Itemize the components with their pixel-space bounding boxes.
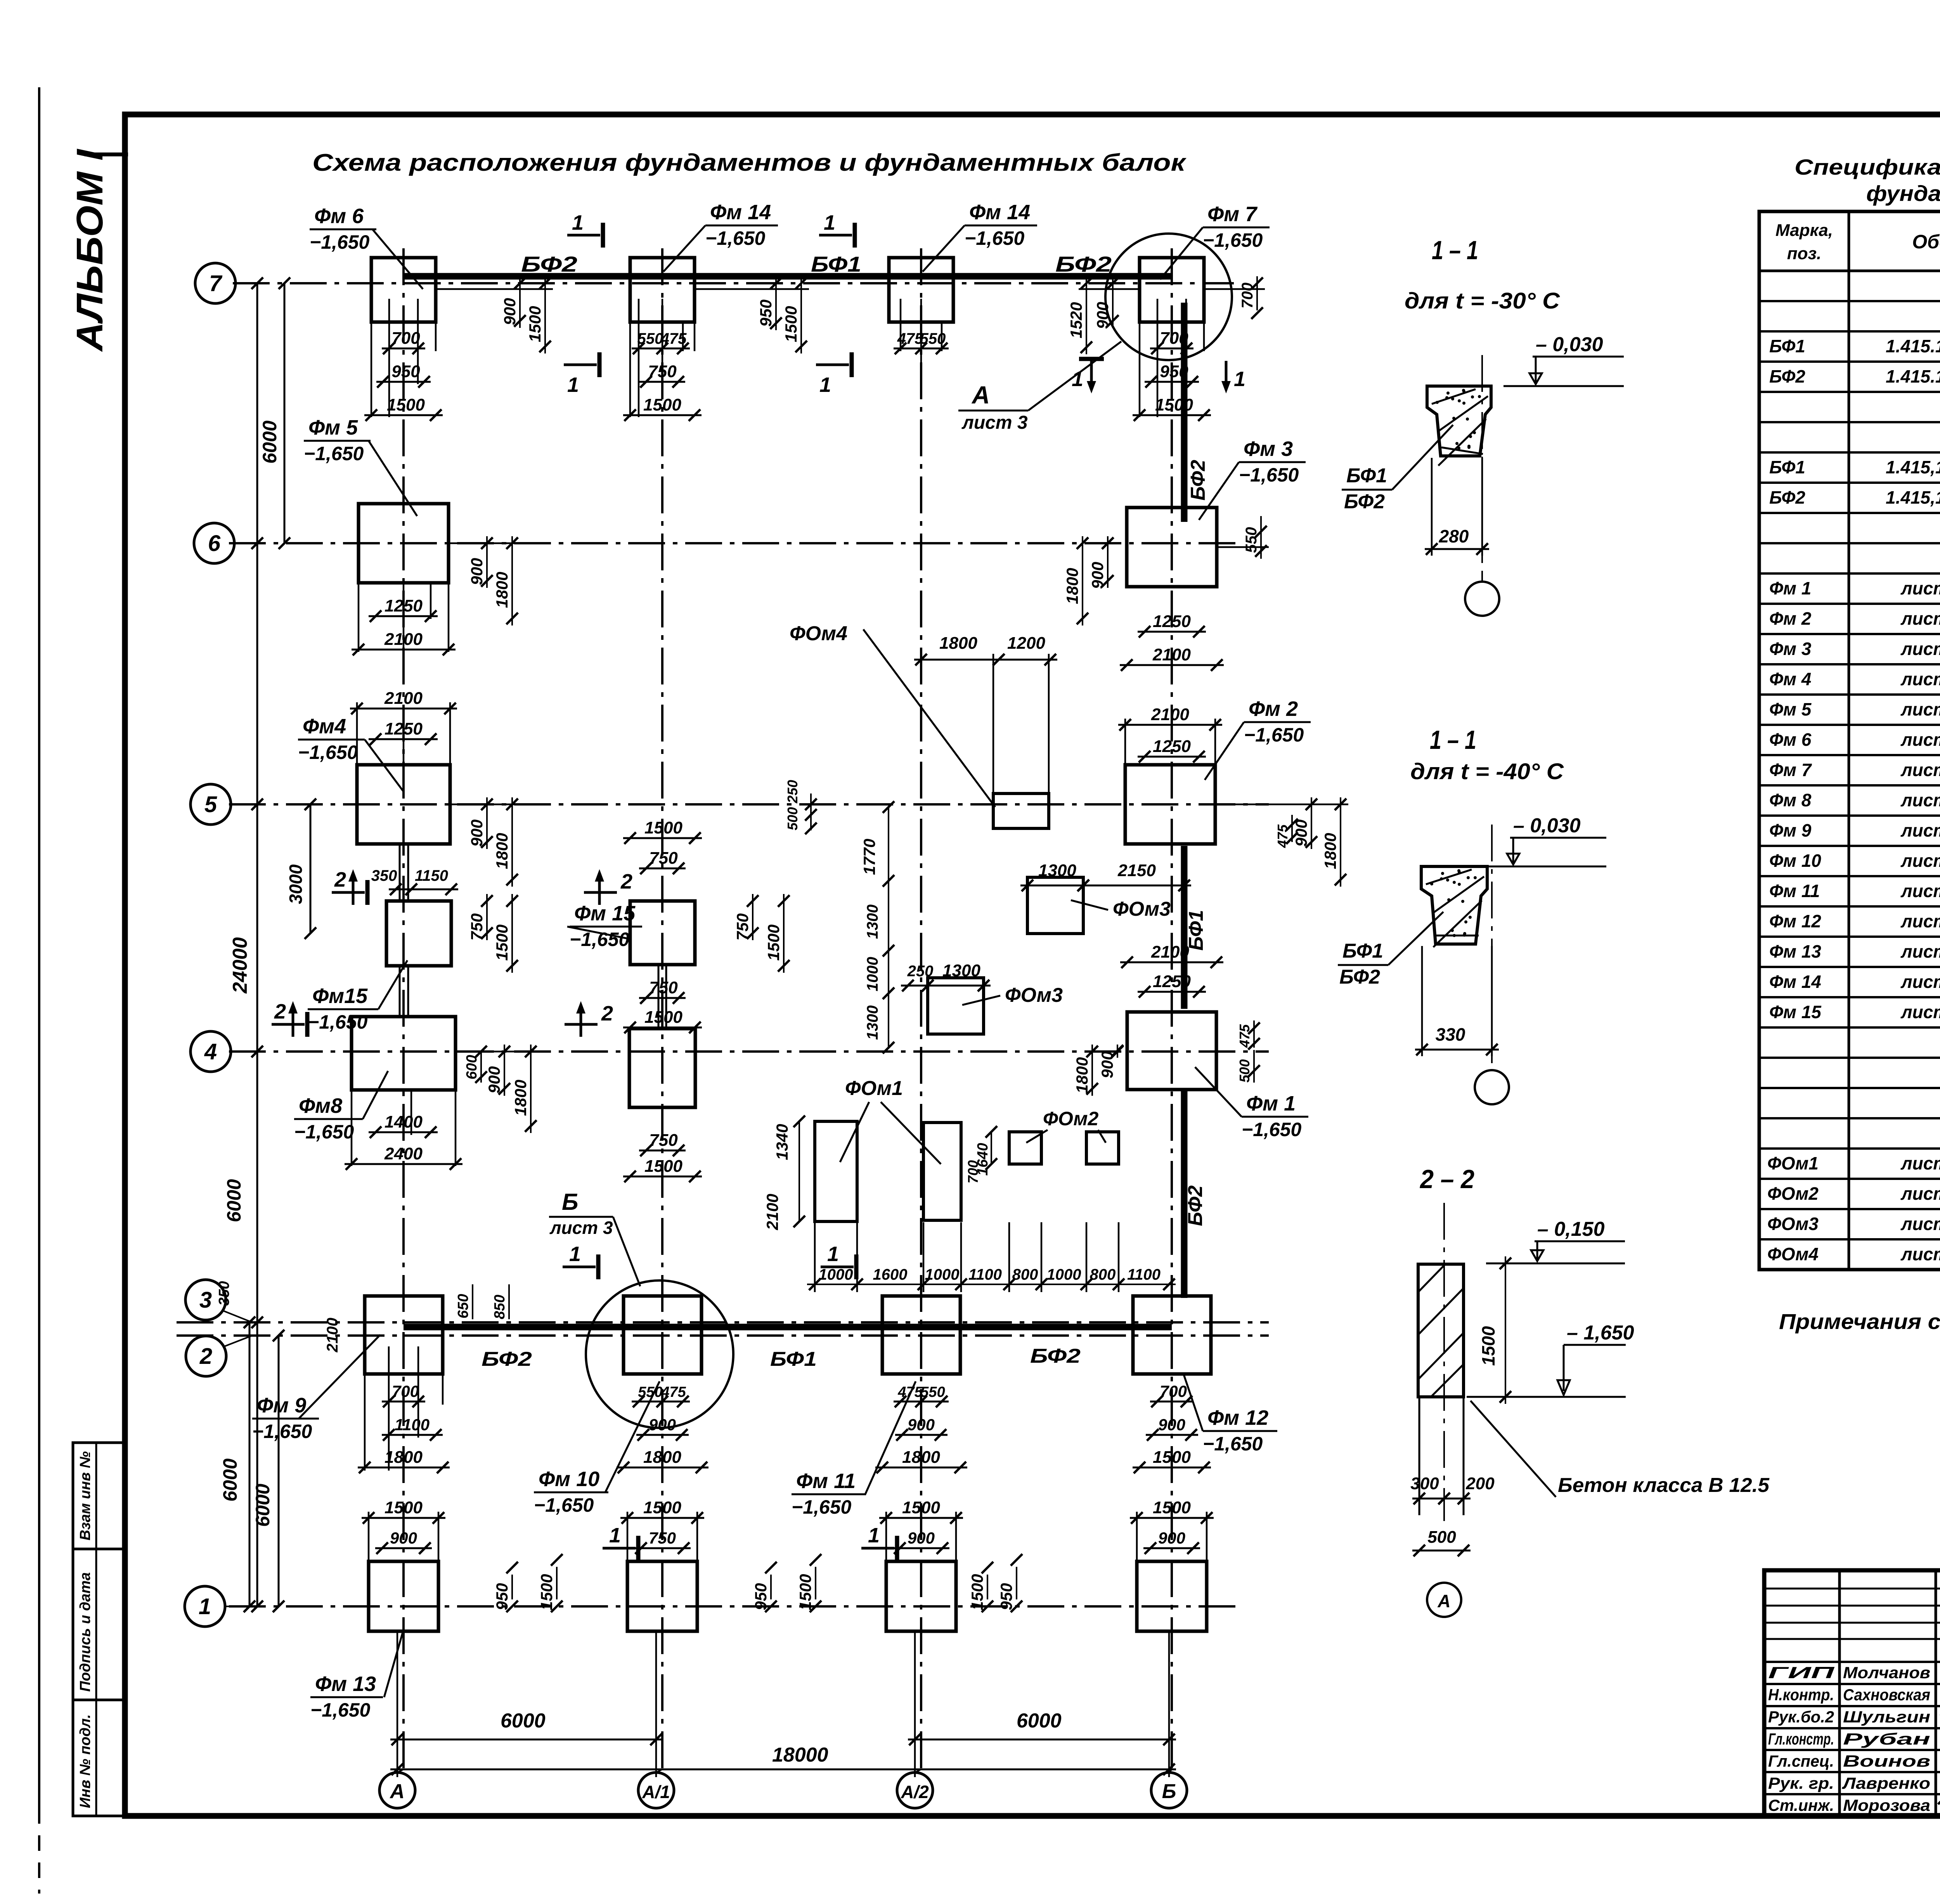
svg-text:Молчанов: Молчанов — [1843, 1663, 1930, 1682]
svg-text:−1,650: −1,650 — [298, 742, 358, 763]
dims below Фм7 700/950/1500 — [1157, 299, 1159, 417]
svg-text:Фм 7: Фм 7 — [1207, 203, 1258, 226]
svg-text:700: 700 — [965, 1160, 981, 1183]
dims above row2 650/850 and 2100 — [472, 1284, 473, 1319]
section 2-2 column with hatch — [1418, 1264, 1464, 1397]
svg-text:−1,650: −1,650 — [252, 1421, 312, 1442]
beam БФ2 row7 А-А/1 — [404, 273, 662, 280]
svg-text:1400: 1400 — [385, 1112, 423, 1131]
section 2-2 centerline — [1443, 1203, 1445, 1521]
svg-text:А/2: А/2 — [901, 1782, 929, 1802]
svg-text:900: 900 — [501, 298, 519, 325]
section 2-2 column below lines — [1419, 1397, 1420, 1515]
svg-text:АЛЬБОМ I: АЛЬБОМ I — [69, 148, 111, 352]
svg-text:1000: 1000 — [1047, 1266, 1081, 1283]
portal lines col А between rows 5-4 — [399, 844, 401, 901]
dims below Фм15 second 750/1500 — [639, 997, 686, 999]
svg-text:Фм 15: Фм 15 — [574, 902, 636, 925]
svg-text:для t = -30° C: для t = -30° C — [1405, 288, 1560, 314]
dims 950/1500 right of row1 squares — [511, 1575, 513, 1599]
svg-text:поз.: поз. — [1787, 244, 1821, 263]
svg-text:550: 550 — [637, 330, 663, 347]
svg-text:ФОм3: ФОм3 — [1113, 898, 1171, 920]
svg-text:900: 900 — [1098, 1051, 1116, 1078]
axis row 1 — [229, 1605, 1238, 1608]
section mark 2 upper right — [584, 891, 617, 894]
svg-text:А/1: А/1 — [642, 1782, 670, 1802]
section mark 2 lower right — [565, 1023, 598, 1026]
dims below Фм9 700/1100/1800 — [388, 1346, 390, 1471]
svg-text:500: 500 — [1427, 1528, 1456, 1547]
svg-text:2: 2 — [274, 1000, 286, 1023]
grid circle 5 — [191, 784, 231, 825]
svg-text:Фм8: Фм8 — [299, 1094, 342, 1117]
svg-text:ФОм3: ФОм3 — [1767, 1214, 1819, 1234]
svg-text:6000: 6000 — [252, 1484, 274, 1527]
svg-text:7: 7 — [209, 271, 223, 296]
svg-text:700: 700 — [1160, 329, 1188, 348]
equipment foundation ФОм2 left — [1009, 1132, 1041, 1164]
svg-text:2400: 2400 — [384, 1144, 423, 1163]
dims right of Фм4 900/1800 — [486, 797, 488, 849]
svg-text:лист 4: лист 4 — [1900, 639, 1940, 659]
svg-text:2: 2 — [334, 868, 346, 891]
svg-text:900: 900 — [1158, 1529, 1185, 1547]
svg-text:1: 1 — [827, 1242, 839, 1266]
svg-text:900: 900 — [1093, 302, 1112, 329]
section mark 1 below row7 second — [816, 364, 849, 366]
svg-text:800: 800 — [1012, 1266, 1038, 1283]
svg-text:6000: 6000 — [501, 1710, 546, 1732]
foundation Фм13 (row1 col А/1) — [627, 1561, 697, 1631]
svg-text:−1,650: −1,650 — [294, 1121, 354, 1143]
svg-text:Фм 13: Фм 13 — [1769, 941, 1821, 962]
dims below Фм14 second 475,550 — [900, 299, 902, 351]
svg-text:1000: 1000 — [864, 957, 881, 991]
axis row 3 — [177, 1321, 1269, 1324]
svg-text:−1,650: −1,650 — [570, 929, 630, 950]
svg-text:Примечания см. лист 3.: Примечания см. лист 3. — [1779, 1309, 1940, 1334]
svg-text:1500: 1500 — [1478, 1326, 1498, 1366]
svg-text:лист 3: лист 3 — [549, 1218, 613, 1238]
svg-text:475: 475 — [1275, 824, 1290, 848]
svg-text:1300: 1300 — [1038, 861, 1076, 880]
grid circle 2 — [186, 1336, 226, 1376]
svg-text:950: 950 — [757, 300, 775, 327]
section 1-1 (t=-40) beam cross-section — [1421, 866, 1487, 944]
svg-text:750: 750 — [649, 849, 678, 868]
svg-text:лист 3: лист 3 — [961, 412, 1028, 433]
svg-text:ФОм2: ФОм2 — [1767, 1183, 1819, 1204]
svg-text:900: 900 — [649, 1415, 676, 1434]
dims below Фм6 700/950/1500 — [388, 299, 390, 417]
svg-text:6: 6 — [208, 531, 221, 556]
svg-text:750: 750 — [649, 1529, 676, 1547]
svg-text:Фм 15: Фм 15 — [1769, 1002, 1822, 1022]
foundation Фм1 (row4 col Б) — [1127, 1012, 1216, 1090]
svg-text:850: 850 — [492, 1295, 508, 1319]
svg-text:950: 950 — [752, 1583, 770, 1610]
svg-text:500: 500 — [1237, 1059, 1252, 1083]
svg-text:1500: 1500 — [1153, 1448, 1191, 1467]
svg-text:лист 6: лист 6 — [1900, 851, 1940, 871]
svg-text:Фм 5: Фм 5 — [1769, 699, 1812, 719]
svg-text:– 0,150: – 0,150 — [1537, 1218, 1605, 1240]
svg-text:6000: 6000 — [219, 1459, 241, 1502]
dim 2150/1300 above ФОм3 upper — [1020, 885, 1090, 887]
svg-text:1.415.1-2, вып. 1: 1.415.1-2, вып. 1 — [1886, 366, 1940, 386]
svg-text:лист 5: лист 5 — [1900, 729, 1940, 750]
svg-text:500: 500 — [785, 807, 800, 830]
svg-text:1250: 1250 — [1153, 737, 1191, 756]
equipment foundation ФОм1 left — [815, 1121, 857, 1221]
section 2-2 dims 300/200 — [1412, 1498, 1451, 1500]
dims 1640/700 left of ФОм2 — [991, 1132, 992, 1164]
svg-text:−1,650: −1,650 — [1239, 464, 1299, 486]
svg-text:950: 950 — [1160, 362, 1188, 381]
dims right of Фм2 900/1800/475 — [1311, 797, 1312, 849]
svg-text:А: А — [389, 1780, 405, 1803]
svg-text:Рук. гр.: Рук. гр. — [1768, 1774, 1834, 1792]
svg-text:Фм 6: Фм 6 — [1769, 729, 1812, 750]
svg-text:900: 900 — [1292, 819, 1310, 847]
svg-text:Фм 3: Фм 3 — [1244, 437, 1293, 461]
equipment foundation ФОм3 lower — [928, 978, 984, 1034]
svg-text:250: 250 — [907, 963, 934, 980]
section 1-1 (t=-30) axis circle — [1481, 574, 1483, 582]
svg-text:– 0,030: – 0,030 — [1536, 333, 1603, 356]
svg-text:ФОм1: ФОм1 — [1767, 1153, 1819, 1173]
svg-text:24000: 24000 — [229, 937, 251, 994]
svg-text:1300: 1300 — [864, 1005, 881, 1040]
svg-text:2100: 2100 — [1151, 705, 1189, 724]
svg-text:Фм 4: Фм 4 — [1769, 669, 1811, 689]
foundation Фм14 (row7 col А/1) — [630, 258, 695, 322]
svg-text:Н.контр.: Н.контр. — [1768, 1686, 1834, 1704]
svg-text:1800: 1800 — [902, 1448, 940, 1467]
foundation Фм7 (row7 col Б) — [1140, 258, 1204, 322]
svg-text:БФ2: БФ2 — [1184, 1185, 1207, 1226]
equipment foundation ФОм2 right — [1086, 1132, 1119, 1164]
svg-text:350: 350 — [371, 867, 397, 884]
foundation Фм6 (row7 col А) — [371, 258, 436, 322]
svg-text:18000: 18000 — [772, 1744, 828, 1766]
section mark 1 above row2 first — [563, 1266, 596, 1268]
dims left of Фм3 1800/900 — [1082, 536, 1083, 625]
svg-text:1200: 1200 — [1007, 634, 1045, 653]
margin box Подпись и дата — [73, 1549, 125, 1700]
svg-text:лист 7: лист 7 — [1900, 911, 1940, 931]
axis row 7 — [233, 282, 1234, 284]
beam БФ1 row7 А/1-А/2 — [662, 273, 921, 280]
beam БФ2 row7 А/2-Б — [921, 273, 1172, 280]
svg-text:БФ1: БФ1 — [1342, 940, 1383, 962]
svg-text:900: 900 — [390, 1529, 417, 1547]
axis row 2 — [177, 1334, 1269, 1337]
svg-text:800: 800 — [1090, 1266, 1116, 1283]
beam БФ2 vertical col Б rows 7-6 — [1181, 303, 1188, 522]
svg-text:475: 475 — [661, 1384, 686, 1400]
beam БФ1 vertical col Б rows 5-4 — [1181, 846, 1188, 1009]
svg-text:Фм 11: Фм 11 — [1769, 881, 1820, 901]
svg-text:550: 550 — [920, 1384, 945, 1400]
svg-text:Фм 8: Фм 8 — [1769, 790, 1812, 810]
svg-text:БФ2: БФ2 — [1769, 487, 1805, 508]
svg-text:750: 750 — [648, 362, 677, 381]
dim 700 right of Фм7 — [1256, 276, 1258, 310]
svg-text:1800: 1800 — [385, 1448, 423, 1467]
section 1-1 (t=-40) axis circle — [1475, 1070, 1509, 1104]
svg-text:700: 700 — [1160, 1382, 1187, 1400]
beam row2 А-Б — [404, 1324, 1172, 1331]
svg-text:700: 700 — [1239, 282, 1256, 308]
svg-text:900: 900 — [908, 1415, 935, 1434]
svg-text:Фм 14: Фм 14 — [1769, 972, 1821, 992]
svg-text:1340: 1340 — [773, 1124, 791, 1160]
svg-text:250: 250 — [785, 780, 800, 804]
svg-text:1500: 1500 — [643, 1498, 681, 1517]
grid circle 3 — [185, 1280, 226, 1320]
section mark 1 arrow near Б left — [1090, 361, 1093, 388]
svg-text:1000: 1000 — [819, 1266, 853, 1283]
foundation Фм13 (row1 col А/2) — [886, 1561, 956, 1631]
dimension 6000 А-А/1 — [390, 1739, 663, 1741]
dims below Фм12 700/900/1500 — [1150, 1401, 1193, 1403]
svg-text:1500: 1500 — [1153, 1498, 1191, 1517]
grid circle 4 — [191, 1031, 231, 1072]
svg-text:Лавренко: Лавренко — [1842, 1774, 1930, 1792]
svg-text:лист 3: лист 3 — [1900, 1153, 1940, 1173]
svg-text:900: 900 — [908, 1529, 935, 1547]
svg-text:1250: 1250 — [385, 596, 423, 615]
dims below Фм10 550,475/900/1800 — [632, 1401, 690, 1403]
svg-text:−1,650: −1,650 — [1244, 724, 1304, 746]
section 1-1 (t=-40) centerline — [1491, 825, 1493, 1063]
svg-text:1: 1 — [567, 373, 579, 397]
svg-text:1.415.1-2, вып. 1: 1.415.1-2, вып. 1 — [1886, 336, 1940, 356]
beam БФ2 vertical col Б rows 4-2 — [1181, 1090, 1188, 1298]
svg-text:650: 650 — [455, 1294, 471, 1318]
svg-text:1800: 1800 — [1073, 1057, 1091, 1093]
svg-text:1520: 1520 — [1067, 302, 1085, 338]
svg-text:2: 2 — [601, 1002, 613, 1025]
section 1-1 (t=-40) dim 330 — [1421, 946, 1423, 1056]
foundation Фм2 (row5 col Б) — [1125, 765, 1215, 844]
svg-text:1500: 1500 — [796, 1574, 814, 1610]
foundation Фм12 (row2 col Б) — [1133, 1296, 1211, 1374]
svg-text:Сахновская: Сахновская — [1843, 1686, 1930, 1704]
svg-text:лист 7: лист 7 — [1900, 941, 1940, 962]
svg-text:350: 350 — [216, 1281, 232, 1306]
axis column А — [402, 248, 405, 1769]
svg-text:1: 1 — [569, 1242, 581, 1266]
svg-text:БФ1: БФ1 — [811, 252, 861, 276]
svg-text:для t = -40° C: для t = -40° C — [1410, 759, 1564, 784]
svg-text:Фм 14: Фм 14 — [969, 201, 1030, 224]
dimension 6000 rows 2-1 chain — [278, 1336, 280, 1606]
svg-text:Воинов: Воинов — [1843, 1752, 1930, 1770]
callout circle А around Фм7 — [1105, 234, 1232, 360]
section mark 1 below row2 first — [603, 1547, 636, 1550]
trim edge line — [38, 87, 40, 1824]
svg-text:ГИП: ГИП — [1768, 1663, 1835, 1682]
callout circle Б around Фм10 — [586, 1280, 733, 1428]
foundation Фм14 (row7 col А/2) — [889, 258, 953, 322]
equipment foundation ФОм4 — [993, 793, 1049, 828]
svg-text:Б: Б — [1162, 1780, 1176, 1803]
axis row 5 — [229, 803, 1269, 806]
dims above Фм1 2100/1250 — [1120, 962, 1223, 963]
svg-text:1300: 1300 — [942, 961, 980, 980]
dims below Фм8 1400/2400 — [351, 1090, 353, 1166]
foundation Фм4 (row5 col А) — [357, 765, 450, 844]
dims 250/1300 above ФОм3 lower — [901, 985, 935, 987]
foundation Фм13 (row1 col Б) — [1137, 1561, 1207, 1631]
svg-text:Фм 10: Фм 10 — [1769, 851, 1821, 871]
svg-text:БФ2: БФ2 — [1769, 366, 1805, 386]
svg-text:лист 7: лист 7 — [1900, 881, 1940, 901]
foundation Фм9 (row2 col А) — [365, 1296, 443, 1374]
svg-text:475: 475 — [1237, 1024, 1252, 1048]
svg-text:Взам инв №: Взам инв № — [77, 1451, 94, 1540]
svg-text:1800: 1800 — [511, 1080, 530, 1116]
svg-text:Марка,: Марка, — [1775, 221, 1833, 240]
margin box Инв № подл — [73, 1700, 125, 1816]
foundation row4 col А/1 — [629, 1029, 695, 1107]
svg-text:БФ2: БФ2 — [1030, 1345, 1081, 1367]
section 2-2 axis circle А — [1427, 1583, 1461, 1617]
svg-text:1800: 1800 — [1063, 568, 1081, 604]
svg-text:900: 900 — [485, 1066, 503, 1093]
svg-text:600: 600 — [464, 1055, 480, 1079]
grid circle 6 — [194, 523, 234, 563]
dims below Фм5 1250/2100 — [403, 583, 405, 652]
section mark 1 top second — [819, 234, 852, 237]
svg-text:1500: 1500 — [968, 1574, 986, 1610]
svg-text:Фм 5: Фм 5 — [308, 416, 358, 439]
svg-text:Фм15: Фм15 — [312, 984, 368, 1008]
svg-text:6000: 6000 — [259, 421, 281, 464]
svg-text:1500: 1500 — [387, 395, 425, 414]
bottom chain 1000 1600 1000 1100 800 1000 800 1100 — [807, 1284, 1176, 1285]
portal lines col А/1 between Фм15 and row4 — [658, 965, 660, 1029]
svg-text:1 – 1: 1 – 1 — [1430, 725, 1476, 755]
svg-text:1500: 1500 — [902, 1498, 940, 1517]
svg-text:ФОм3: ФОм3 — [1005, 984, 1063, 1007]
svg-text:1500: 1500 — [1155, 395, 1193, 414]
svg-text:1 – 1: 1 – 1 — [1432, 236, 1478, 265]
svg-text:Фм 9: Фм 9 — [257, 1394, 306, 1417]
svg-text:Инв № подл.: Инв № подл. — [77, 1714, 94, 1808]
svg-text:550: 550 — [920, 330, 946, 347]
svg-text:Фм 7: Фм 7 — [1769, 760, 1812, 780]
svg-text:Шульгин: Шульгин — [1843, 1708, 1930, 1726]
dims 250/500 left of ФОм4 — [810, 793, 812, 830]
svg-text:Фм 12: Фм 12 — [1769, 911, 1821, 931]
svg-text:1800: 1800 — [493, 833, 511, 869]
svg-text:280: 280 — [1439, 526, 1469, 546]
svg-text:1800: 1800 — [939, 634, 977, 653]
dims near Фм15 first 350/1150 — [389, 889, 418, 890]
svg-text:Фм 2: Фм 2 — [1769, 608, 1812, 629]
svg-text:2100: 2100 — [763, 1194, 781, 1230]
svg-text:1100: 1100 — [1127, 1266, 1161, 1283]
svg-text:Фм 2: Фм 2 — [1249, 697, 1298, 721]
grid circle А — [379, 1772, 415, 1808]
svg-text:1250: 1250 — [1153, 972, 1191, 991]
section 1-1 (t=-30) beam БФ1/БФ2 cross-section — [1427, 386, 1491, 456]
svg-text:5: 5 — [204, 792, 217, 817]
dims right of Фм15 first 750/1500 — [486, 894, 488, 940]
svg-text:−1,650: −1,650 — [304, 443, 364, 464]
svg-text:ФОм4: ФОм4 — [790, 622, 847, 645]
section 1-1 (t=-30) dim 280 — [1431, 458, 1433, 556]
svg-text:1: 1 — [199, 1594, 211, 1619]
dims above row1 squares — [362, 1517, 445, 1519]
dimension 6000 А/2-Б — [908, 1739, 1176, 1741]
svg-text:1500: 1500 — [385, 1498, 423, 1517]
svg-text:2 – 2: 2 – 2 — [1419, 1164, 1474, 1194]
svg-text:1770: 1770 — [860, 839, 878, 875]
svg-text:лист 6: лист 6 — [1900, 790, 1940, 810]
svg-text:550: 550 — [638, 1384, 662, 1400]
dims below row4 col А/1 750/1500 — [639, 1150, 686, 1152]
svg-text:700: 700 — [391, 329, 420, 348]
svg-text:БФ2: БФ2 — [1339, 966, 1380, 988]
svg-text:1800: 1800 — [493, 572, 511, 608]
svg-text:ФОм1: ФОм1 — [845, 1077, 903, 1100]
section 1-1 (t=-30) centerline — [1481, 355, 1483, 574]
svg-text:900: 900 — [1158, 1415, 1185, 1434]
section 2-2 dim 500 — [1412, 1550, 1471, 1552]
svg-text:лист 4: лист 4 — [1900, 608, 1940, 629]
foundation Фм13 (row1 col А) — [369, 1561, 438, 1631]
dimension 18000 А-Б — [390, 1769, 1176, 1771]
svg-text:−1,650: −1,650 — [310, 1699, 371, 1721]
dims above Фм2 2100/1250 — [1118, 724, 1222, 726]
svg-text:−1,650: −1,650 — [1203, 229, 1263, 251]
svg-text:2: 2 — [199, 1344, 212, 1369]
svg-text:лист 3: лист 3 — [1900, 1244, 1940, 1264]
svg-text:Фм 11: Фм 11 — [796, 1469, 856, 1493]
grid circle Б — [1151, 1772, 1187, 1808]
dims below Фм11 475,550/900/1800 — [894, 1401, 949, 1403]
svg-text:ФОм2: ФОм2 — [1043, 1108, 1099, 1130]
svg-text:1800: 1800 — [643, 1448, 681, 1467]
title block signature column lines — [1838, 1570, 1841, 1816]
svg-text:−1,650: −1,650 — [705, 227, 766, 249]
svg-text:1500: 1500 — [537, 1574, 556, 1610]
spec table header row line — [1759, 270, 1940, 272]
svg-text:1500: 1500 — [643, 395, 681, 414]
svg-text:А: А — [1437, 1591, 1450, 1611]
svg-text:1600: 1600 — [873, 1266, 908, 1283]
axis row 4 — [229, 1050, 1269, 1053]
svg-text:750: 750 — [649, 1131, 678, 1150]
svg-text:1500: 1500 — [782, 306, 800, 342]
title block outer border — [1764, 1570, 1940, 1816]
svg-text:−1,650: −1,650 — [1242, 1119, 1302, 1140]
dims 950/1500 right of Фм14 — [775, 276, 777, 330]
dims below Фм3 1250/2100 — [1138, 631, 1206, 633]
svg-text:4: 4 — [204, 1039, 217, 1064]
svg-text:– 0,030: – 0,030 — [1513, 814, 1581, 837]
margin box Взам инв № — [73, 1443, 125, 1549]
svg-text:550: 550 — [1243, 527, 1260, 553]
axis column А/2 — [920, 248, 922, 1769]
svg-text:1500: 1500 — [526, 306, 544, 342]
section mark 1 arrow near Б right — [1225, 361, 1228, 388]
